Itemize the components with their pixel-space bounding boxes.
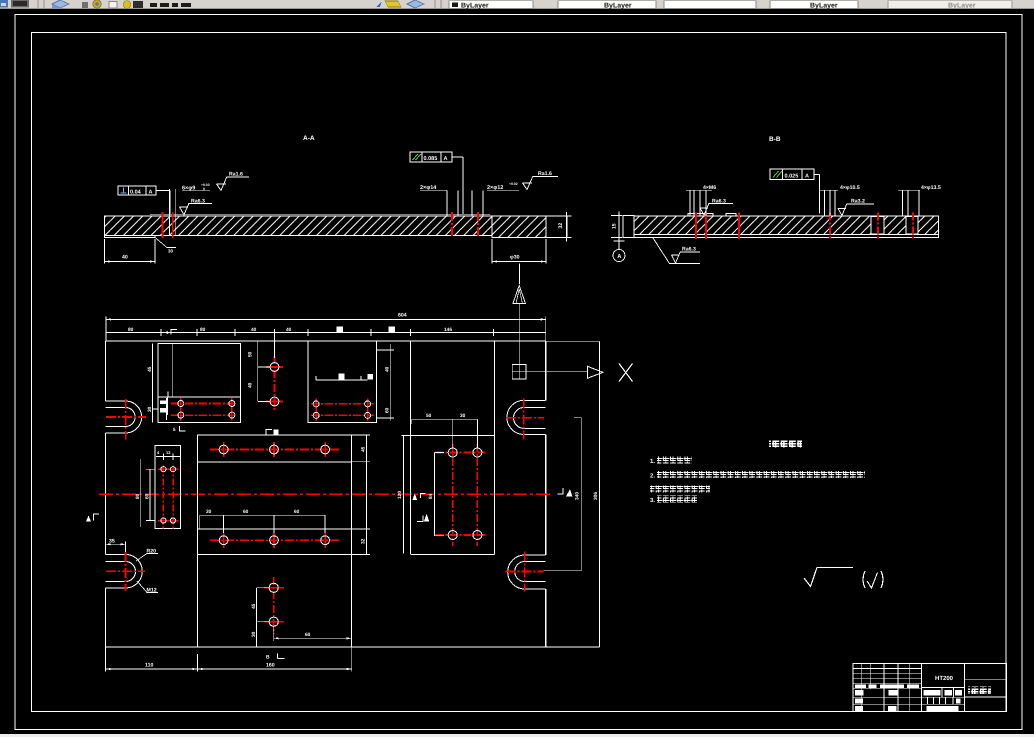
dimension 604 overall top [106,317,546,342]
svg-text:45: 45 [147,366,153,372]
title block middle text blobs [924,690,963,711]
UCS icon: vertical shaft [518,304,520,365]
toolbar combobox 5 (disabled) [888,1,1012,8]
long plate 1 (3 holes) [197,435,351,462]
svg-text:30: 30 [168,249,174,254]
svg-text:HT200: HT200 [935,675,954,682]
svg-text:80: 80 [200,327,206,333]
long plate 1 centerline (red) [210,449,340,451]
title block main verticals [922,663,965,711]
right plate (4 holes) [401,436,494,555]
dimension 40 below-left [105,239,156,264]
toolbar icon: left colored button [0,0,8,8]
U-slot bottom-left centerlines [106,552,145,591]
leader M12 [137,581,158,593]
middle circles dims 50/40 [258,334,275,402]
svg-text:60: 60 [385,407,391,413]
svg-text:0: 0 [203,187,205,191]
bottom dimension 160 [197,647,351,672]
leader with Ra6.3 below B-B [653,238,700,264]
svg-text:40: 40 [122,255,128,261]
surface finish legend: big check [804,568,853,587]
svg-text:1.: 1. [650,458,655,465]
long plate 2 centerline (red) [210,539,340,541]
plate height dims 45/32 [352,435,404,554]
toolbar strip (cut off at top of screenshot) [0,0,1034,9]
bottom middle dims 45/30/60 [257,588,352,647]
plate 1 dimensions [152,344,167,423]
U-slot bottom-left [106,554,143,588]
middle circles column [266,356,283,412]
svg-text:30: 30 [251,631,257,637]
section A-A hole extension lines left [170,189,176,236]
section mark at left edge [94,514,100,521]
top dimension row ticks [106,329,546,336]
svg-text:φ30: φ30 [510,255,520,261]
svg-text:R20: R20 [147,549,157,555]
surface finish Ra1.6 (left) [217,177,250,191]
title block part name (Chinese) [968,687,991,695]
dimension phi30 below-right [492,239,546,284]
plate 2 holes [313,401,371,419]
toolbar text remnant (cut) [150,3,191,7]
svg-text:12: 12 [166,450,171,455]
svg-text:Ra1.6: Ra1.6 [229,172,243,178]
svg-text:60: 60 [305,632,311,638]
label 4xM6 [686,190,712,216]
long plate 1 holes [219,445,329,454]
svg-text:32: 32 [361,538,367,544]
svg-text:306: 306 [593,492,599,500]
svg-text:ByLayer: ByLayer [604,2,632,9]
toolbar small icons [82,2,88,8]
svg-text:B-B: B-B [769,136,781,143]
svg-text:15: 15 [612,223,618,229]
svg-text:50: 50 [248,351,254,357]
plate 2 small labels and dim [339,373,345,379]
svg-text:160: 160 [266,663,275,669]
section B-B top lips [688,214,736,216]
svg-text:80: 80 [135,493,141,499]
svg-text:0.025: 0.025 [785,173,799,179]
dimension arrowheads [105,260,547,670]
svg-text:4×M6: 4×M6 [703,185,716,191]
svg-text:146: 146 [444,327,452,333]
dimension 35 above bottom-left U-slot [106,542,126,553]
svg-text:60: 60 [243,509,249,515]
tech requirements title [769,441,802,449]
svg-text:30: 30 [460,413,466,419]
svg-text:120: 120 [397,491,403,499]
section B-B bar body [623,216,939,238]
left tall rectangle [155,446,181,529]
section B-B hatch gaps [871,217,918,234]
long plate 2 holes [219,536,329,545]
datum symbol A below B-B [613,238,625,262]
title block outline [853,663,1006,711]
svg-text:Ra6.3: Ra6.3 [682,247,696,253]
svg-text:0.04: 0.04 [130,189,142,195]
datum frame perpendicularity 0.04 A [118,186,170,214]
U-slot right-top centerlines [506,399,544,440]
svg-text:80: 80 [128,327,134,333]
bottom dimension 110 [106,647,198,672]
svg-text:4×φ10.5: 4×φ10.5 [840,185,860,191]
svg-text:A-A: A-A [303,135,315,142]
toolbar combobox 1 [449,1,533,8]
svg-text:40: 40 [385,366,391,372]
toolbar combobox 3 [664,1,756,8]
svg-text:32: 32 [558,223,564,229]
svg-text:ByLayer: ByLayer [948,2,976,9]
svg-text:A: A [805,173,809,179]
svg-text:0.085: 0.085 [424,156,438,162]
section mark near right plate (lower) [417,516,423,522]
svg-text:ByLayer: ByLayer [810,2,838,9]
right plate inner vertical dim [434,453,444,536]
toolbar icon: yellow with arrow [376,1,382,7]
svg-text:30: 30 [147,406,153,412]
section A-A hole extension lines right [447,191,483,217]
bottom middle holes [264,577,284,634]
svg-text:Ra6.3: Ra6.3 [712,198,726,204]
toolbar combobox 2 [558,1,656,8]
parallelism frame 0.025 A (B-B) [770,169,820,214]
svg-text:110: 110 [145,663,153,669]
right vertical dim lines [544,341,600,647]
svg-text:340: 340 [575,492,581,500]
svg-text:604: 604 [398,313,407,319]
toolbar combobox 4 [770,1,858,8]
UCS icon: horizontal shaft to X arrow [526,371,588,373]
U-slot top-left centerlines [106,399,146,440]
UCS icon: X label [619,364,633,382]
svg-text:+0.02: +0.02 [509,182,518,186]
section mark 1-corner at top [171,330,177,335]
svg-text:Ra1.6: Ra1.6 [538,171,552,177]
title block left grid text blobs [855,684,919,711]
svg-text:40: 40 [286,327,292,333]
svg-text:84: 84 [428,493,434,499]
dimension 32 right side [567,212,572,242]
label 4xphi13.5 [898,190,920,216]
toolbar icon: monitor button [11,0,29,8]
right plate dim 50/30 [411,419,477,452]
left tall rectangle red centerlines [158,466,179,529]
svg-text:2×φ14: 2×φ14 [420,185,437,191]
svg-text:M12: M12 [147,588,157,594]
long plate 2 (3 holes) [197,529,351,555]
plate 2 hole centerlines (red) [311,399,374,422]
surface finish Ra3.2 on B-B [838,204,874,216]
section A-A top lip line [150,213,490,215]
surface finish Ra1.6 (right) [523,176,559,189]
section A-A red centerlines [163,212,479,238]
svg-text:2×φ12: 2×φ12 [487,185,503,191]
svg-text:4×φ13.5: 4×φ13.5 [921,185,941,191]
svg-text:30: 30 [206,509,212,515]
svg-text:2.: 2. [650,473,655,480]
title block middle sub-cells [922,688,965,705]
plate 1 hole centerlines (red) [171,398,237,421]
toolbar icon: blue cube [52,0,69,8]
left tall rectangle holes [161,467,176,524]
section A-A bar body (hatched) [105,216,568,238]
svg-text:60: 60 [294,509,300,515]
plate 1 holes [178,401,235,419]
A-A left step leader [155,238,176,248]
svg-text:Ra3.2: Ra3.2 [851,199,865,205]
svg-text:A: A [149,189,153,195]
right column verticals [411,341,495,554]
toolbar separator [37,0,39,8]
toolbar separators [434,0,436,8]
U-slot bottom-right centerlines [506,552,544,592]
plan outline with U-slot gaps [106,341,546,647]
svg-text:50: 50 [426,413,432,419]
svg-text:A: A [444,156,448,162]
plate 2 right dims 40/60 [376,344,394,421]
svg-text:ByLayer: ByLayer [461,2,489,9]
title block left grid [853,663,921,711]
UCS icon: right arrowhead [588,366,604,378]
svg-text:60: 60 [145,493,151,499]
UCS icon: box with cross [512,365,526,380]
central column verticals [197,435,351,647]
svg-text:40: 40 [248,382,254,388]
surface finish Ra6.3 on B-B [700,204,733,215]
main red axis centerline [99,493,552,495]
surface finish legend: parenthesized check [863,571,865,588]
toolbar icon: blue cube 2 [407,0,424,8]
leader R20 [136,554,158,562]
svg-text:Ra6.3: Ra6.3 [191,198,205,204]
svg-text:40: 40 [251,327,257,333]
label 4xphi10.5 [820,190,838,216]
title block right: part name cell lines [965,680,1007,697]
tech requirements line 3 [650,486,710,493]
U-slot right-top (opens right) [507,400,546,434]
section arrow mark right of plan [558,488,564,494]
plate block 2 (top-middle) [308,341,376,423]
right plate hole centerlines (red) [436,444,486,546]
dim row 30/60/60 [200,515,325,533]
svg-text:3.: 3. [650,497,655,504]
svg-text:B: B [266,655,270,661]
dimension 15 left of B-B [611,212,622,242]
svg-text:45: 45 [361,446,367,452]
U-slot top-left [106,401,142,433]
section B-B red centerlines [696,213,913,240]
UCS icon: up arrow [513,286,526,304]
parallelism frame 0.085 A [410,152,463,214]
surface finish Ra6.3 (left) [180,204,213,215]
left tall rectangle dims [141,454,180,528]
U-slot bottom-right (opens right) [508,555,546,589]
right plate holes [448,448,482,540]
section mark near right plate (upper) [421,494,426,499]
svg-text:45: 45 [251,603,257,609]
section mark B top of central column [266,430,272,435]
status bar at bottom [0,734,1034,737]
plate block 1 (top-left) [158,344,241,423]
